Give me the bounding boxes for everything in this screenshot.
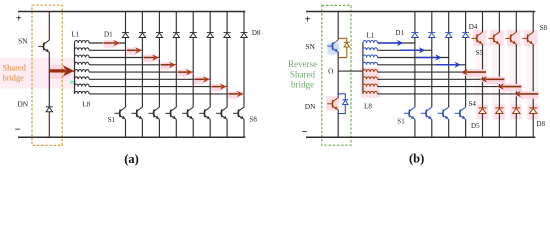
current flow arrow row 3 (b) (417, 54, 442, 60)
switch S6 (b) (488, 32, 499, 44)
wire reverse-bridge column upper (b) (337, 12, 339, 41)
wire shared-bridge column lower (a) (48, 112, 50, 137)
wire leg 4 upper (b) (465, 12, 467, 33)
inductor L8 (a) (75, 91, 90, 94)
inductor L2 (b) (363, 48, 378, 51)
svg-text:D4: D4 (469, 23, 478, 31)
svg-text:S4: S4 (468, 100, 476, 108)
svg-text:L1: L1 (71, 31, 79, 39)
switch S2 (a) (131, 107, 142, 119)
transistor SN (b) (327, 40, 338, 52)
current flow arrow row 1 (a) (104, 39, 122, 49)
diode D8 (b) (529, 108, 537, 114)
wire leg 5 middle (b) (482, 44, 484, 108)
inductor L7 (a) (75, 84, 90, 87)
positive rail (b) (306, 11, 535, 13)
diode D2 (b) (428, 33, 435, 38)
wire leg 6 upper (b) (498, 12, 500, 33)
inductor L1 (a) (75, 40, 90, 43)
current flow arrow row 8 (a) (228, 90, 244, 100)
wire leg 1 upper (b) (414, 12, 416, 33)
pale band behind leg 5 (b) (475, 30, 488, 120)
wire leg 6 upper (a) (209, 12, 211, 33)
svg-text:D1: D1 (395, 29, 404, 37)
wire leg 2 upper (b) (431, 12, 433, 33)
current flow arrow row 6 (a) (194, 75, 210, 85)
wire leg 7 middle (a) (226, 38, 228, 108)
wire leg 6 middle (b) (498, 44, 500, 108)
negative rail (b) (306, 136, 535, 138)
highlight behind bold input arrow (a) (50, 65, 63, 79)
wire leg 8 lower (b) (532, 114, 534, 138)
svg-text:DN: DN (305, 102, 316, 111)
inductor L6 (a) (75, 77, 90, 80)
inductor L5 (b) (363, 70, 378, 73)
current flow arrow row 4 (a) (160, 61, 176, 71)
wire leg 2 upper (a) (141, 12, 143, 33)
svg-text:S1: S1 (397, 118, 405, 126)
reverse shared bridge dashed box (b) (322, 5, 351, 145)
wire row 3 to leg 3 (b) (378, 57, 449, 59)
wire leg 6 lower (b) (498, 114, 500, 138)
wire leg 6 lower (a) (209, 119, 211, 137)
wire row 1 to leg 1 (b) (378, 42, 415, 44)
wire leg 4 upper (a) (175, 12, 177, 33)
reverse current flow arrow row 8 (b) (513, 90, 539, 100)
diode D1 (a) (122, 33, 129, 38)
wire node to inductor bus (a) (49, 70, 74, 72)
inductor L3 (a) (75, 55, 90, 58)
svg-text:bridge: bridge (3, 73, 25, 82)
svg-text:L8: L8 (82, 100, 90, 108)
svg-text:−: − (302, 127, 308, 138)
wire row 1 to leg 1 (a) (89, 42, 125, 44)
wire row 8 to leg 8 (a) (89, 93, 244, 95)
wire leg 2 middle (b) (431, 38, 433, 108)
switch S5 (b) (472, 32, 483, 44)
inductor bus wire (b) (362, 43, 364, 94)
wire row 5 to leg 5 (b) (378, 71, 483, 73)
current flow arrow row 4 (b) (436, 62, 461, 68)
inductor L2 (a) (75, 48, 90, 51)
wire shared-bridge column upper (a) (48, 12, 50, 41)
wire leg 3 middle (a) (158, 38, 160, 108)
wire leg 4 middle (b) (465, 38, 467, 108)
transistor SN (a) (38, 40, 49, 52)
wire reverse-bridge column lower (b) (337, 110, 339, 138)
reverse current flow arrow row 7 (b) (496, 83, 522, 93)
diode D2 (a) (139, 33, 146, 38)
svg-text:D1: D1 (104, 31, 113, 39)
current flow arrow row 3 (a) (143, 54, 159, 64)
pale band behind leg 7 (b) (509, 30, 522, 120)
highlight behind transistor SN (b) (328, 43, 340, 55)
wire leg 2 lower (a) (141, 119, 143, 137)
wire leg 1 middle (b) (414, 38, 416, 108)
inductor L4 (a) (75, 62, 90, 65)
inductor L7 (b) (363, 84, 378, 87)
wire leg 7 lower (a) (226, 119, 228, 137)
diode D3 (b) (445, 33, 452, 38)
diode D7 (a) (224, 33, 231, 38)
svg-text:S1: S1 (108, 116, 116, 124)
wire leg 7 lower (b) (515, 114, 517, 138)
cyan mark on inductor bus (a) (70, 81, 76, 84)
current flow arrow row 7 (a) (211, 83, 227, 93)
highlight behind diode D6 (b) (494, 104, 505, 119)
wire row 7 to leg 7 (b) (378, 86, 517, 88)
wire shared-bridge column middle (a) (48, 52, 50, 107)
svg-text:D8: D8 (536, 120, 545, 128)
inductor L5 (a) (75, 70, 90, 73)
svg-text:bridge: bridge (291, 80, 314, 90)
wire leg 8 upper (b) (532, 12, 534, 33)
wire leg 1 middle (a) (125, 38, 127, 108)
wire leg 1 lower (b) (414, 119, 416, 137)
wire leg 3 upper (a) (158, 12, 160, 33)
wire row 2 to leg 2 (b) (378, 49, 432, 51)
svg-text:L1: L1 (366, 32, 374, 40)
wire leg 7 upper (a) (226, 12, 228, 33)
wire leg 3 middle (b) (448, 38, 450, 108)
wire leg 8 upper (a) (243, 12, 245, 33)
wire leg 5 lower (a) (192, 119, 194, 137)
negative rail (a) (18, 136, 245, 138)
svg-text:(a): (a) (124, 152, 139, 166)
antiparallel diode of DN (b) (338, 94, 345, 114)
switch S4 (b) (455, 107, 466, 119)
wire row 5 to leg 5 (a) (89, 71, 193, 73)
switch S1 (a) (115, 107, 126, 119)
highlight behind switch S8 (b) (524, 30, 538, 46)
diode D8 (a) (241, 33, 248, 38)
svg-text:Reverse: Reverse (288, 59, 317, 69)
transistor DN (b) (327, 98, 338, 110)
svg-text:S5: S5 (476, 49, 484, 57)
svg-text:DN: DN (17, 100, 28, 109)
wire row 6 to leg 6 (a) (89, 78, 210, 80)
wire row 8 to leg 8 (b) (378, 93, 534, 95)
wire leg 7 upper (b) (515, 12, 517, 33)
node O wire to inductor bus (b) (338, 70, 363, 72)
diode DN (a) (46, 107, 53, 112)
switch S7 (a) (216, 107, 227, 119)
current flow arrow row 2 (a) (127, 46, 143, 56)
switch S5 (a) (182, 107, 193, 119)
diode D5 (b) (479, 108, 487, 114)
pale pink wash around shared bridge (a) (0, 58, 76, 89)
inductor L8 (b) (363, 91, 378, 94)
wire leg 8 middle (b) (532, 44, 534, 108)
antiparallel diode of SN (b) (338, 38, 347, 57)
inductor bus wire (a) (74, 43, 76, 94)
svg-text:S8: S8 (540, 24, 548, 32)
wire leg 5 lower (b) (482, 114, 484, 138)
highlight behind diode D5 (b) (477, 104, 488, 119)
switch S6 (a) (199, 107, 210, 119)
highlight behind diode D7 (b) (511, 104, 522, 119)
svg-text:+: + (305, 14, 311, 25)
highlight behind switch S5 (b) (473, 30, 487, 46)
wire leg 3 lower (b) (448, 119, 450, 137)
svg-text:(b): (b) (409, 152, 424, 166)
pale band behind leg 6 (b) (492, 30, 505, 120)
diode D1 (b) (411, 33, 418, 38)
wire leg 2 lower (b) (431, 119, 433, 137)
switch S8 (a) (233, 107, 244, 119)
current flow arrow row 5 (a) (177, 68, 193, 78)
svg-text:−: − (15, 124, 21, 135)
diode D4 (b) (462, 33, 469, 38)
svg-text:SN: SN (18, 37, 28, 46)
switch S4 (a) (165, 107, 176, 119)
wire reverse-bridge column middle (b) (337, 52, 339, 98)
switch S7 (b) (505, 32, 516, 44)
wire leg 5 middle (a) (192, 38, 194, 108)
svg-text:D5: D5 (471, 122, 480, 130)
current flow arrow row 1 (b) (378, 40, 403, 46)
positive rail (a) (18, 11, 245, 13)
wire leg 2 middle (a) (141, 38, 143, 108)
inductor L6 (b) (363, 77, 378, 80)
switch S2 (b) (421, 107, 432, 119)
reverse current flow arrow row 5 (b) (460, 68, 487, 78)
switch S1 (b) (404, 107, 415, 119)
wire leg 5 upper (a) (192, 12, 194, 33)
diode D6 (a) (207, 33, 214, 38)
wire leg 8 lower (a) (243, 119, 245, 137)
diode D6 (b) (495, 108, 503, 114)
pale band behind leg 8 (b) (526, 30, 539, 120)
wire row 7 to leg 7 (a) (89, 86, 227, 88)
bold input current arrow (a) (50, 69, 65, 72)
svg-text:O: O (328, 68, 333, 76)
svg-text:Shared: Shared (290, 69, 315, 79)
wire leg 4 middle (a) (175, 38, 177, 108)
svg-text:+: + (16, 14, 22, 25)
current flow arrow row 2 (b) (400, 47, 425, 53)
svg-text:Shared: Shared (3, 63, 27, 72)
wire leg 4 lower (b) (465, 119, 467, 137)
inductor L4 (b) (363, 62, 378, 65)
inductor L3 (b) (363, 55, 378, 58)
highlight behind diode D8 (b) (528, 104, 539, 119)
wire leg 1 lower (a) (125, 119, 127, 137)
diode D3 (a) (156, 33, 163, 38)
highlight behind reverse coils L5-L8 (b) (360, 68, 380, 98)
inductor L1 (b) (363, 40, 378, 43)
svg-text:L8: L8 (364, 102, 372, 110)
diode D5 (a) (190, 33, 197, 38)
wire row 6 to leg 6 (b) (378, 78, 500, 80)
wire leg 8 middle (a) (243, 38, 245, 108)
highlight behind switch S6 (b) (490, 30, 504, 46)
wire leg 1 upper (a) (125, 12, 127, 33)
highlight behind transistor DN (b) (326, 96, 339, 111)
svg-text:SN: SN (305, 42, 315, 51)
wire leg 4 lower (a) (175, 119, 177, 137)
diode D7 (b) (512, 108, 520, 114)
reverse current flow arrow row 6 (b) (479, 75, 505, 85)
switch S3 (a) (148, 107, 159, 119)
wire leg 3 upper (b) (448, 12, 450, 33)
wire row 4 to leg 4 (a) (89, 64, 176, 66)
wire leg 5 upper (b) (482, 12, 484, 33)
wire leg 7 middle (b) (515, 44, 517, 108)
wire row 4 to leg 4 (b) (378, 64, 466, 66)
wire row 2 to leg 2 (a) (89, 49, 142, 51)
highlight behind switch S7 (b) (507, 30, 521, 46)
wire leg 3 lower (a) (158, 119, 160, 137)
svg-text:S8: S8 (249, 116, 257, 124)
switch S3 (b) (438, 107, 449, 119)
wire leg 6 middle (a) (209, 38, 211, 108)
wire row 3 to leg 3 (a) (89, 57, 159, 59)
shared bridge dashed box (a) (32, 5, 62, 145)
switch S8 (b) (522, 32, 533, 44)
svg-text:D8: D8 (252, 29, 261, 37)
diode D4 (a) (173, 33, 180, 38)
